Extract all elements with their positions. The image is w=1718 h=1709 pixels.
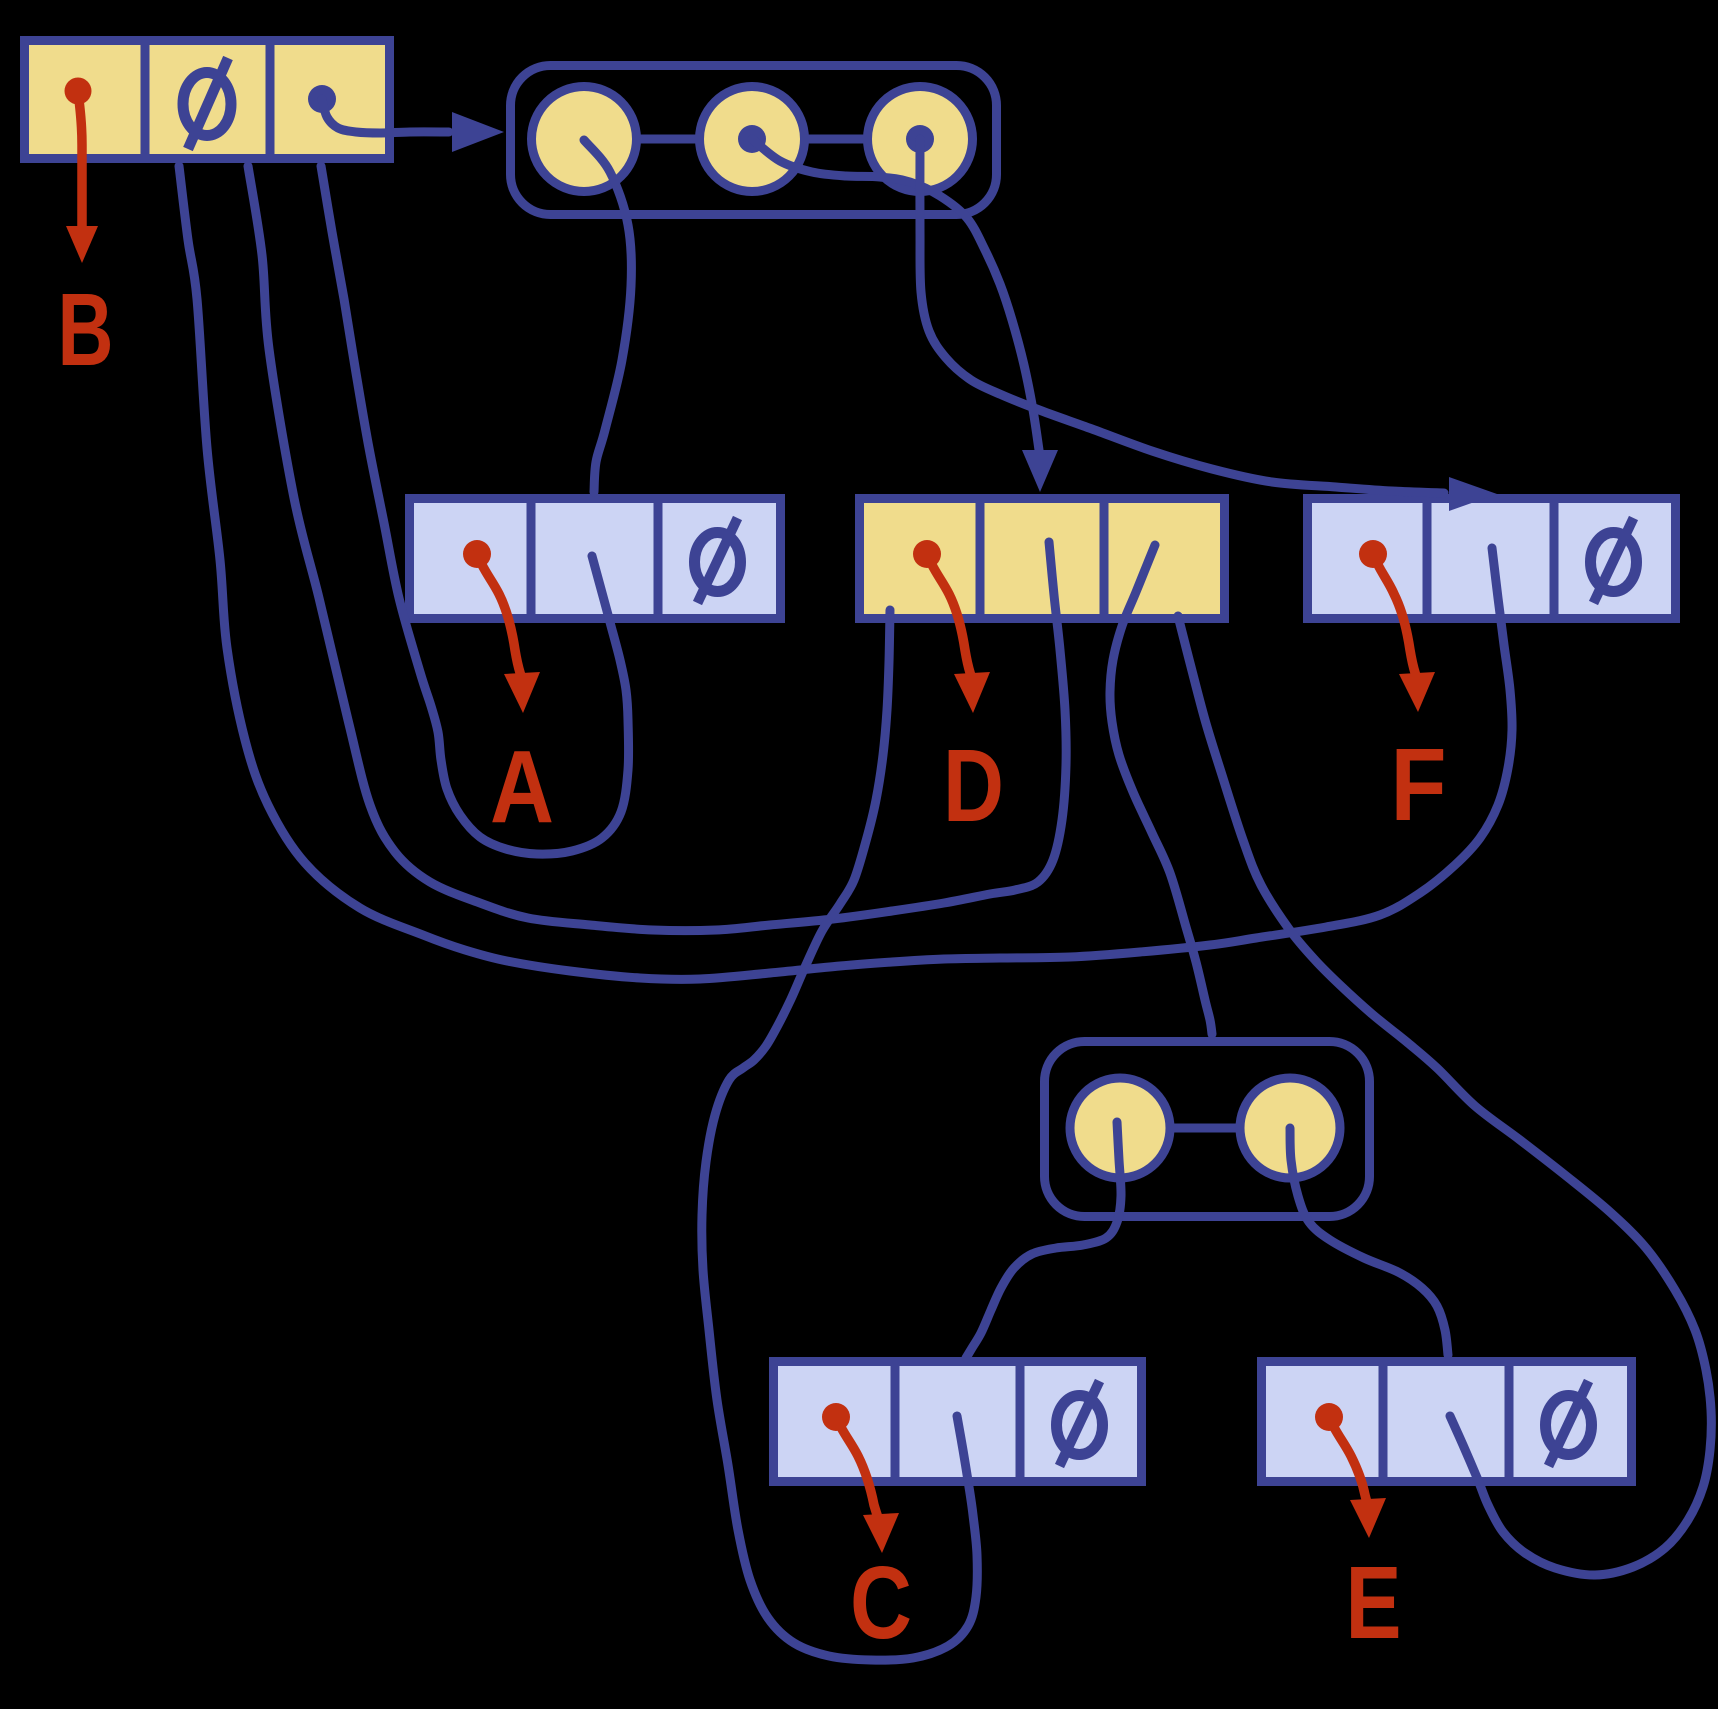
wire circle3 to F (arrow right) (920, 139, 1444, 493)
data dot in D cell1 (913, 540, 941, 568)
set container 1 (children of B) (511, 66, 997, 215)
pointer dot in circle 2 (738, 125, 766, 153)
null symbol in F cell3 (1591, 518, 1637, 603)
set 1 member circle 2 (700, 87, 805, 192)
node box A (light blue) (410, 494, 781, 623)
set 1 member circle 3 (868, 87, 973, 192)
data arrowhead of E (1350, 1498, 1386, 1538)
wire D.cell3 to set container 2 (1110, 545, 1212, 1034)
data dot in E cell1 (1315, 1403, 1343, 1431)
set 2 member circle left (1070, 1078, 1170, 1178)
wire A.cell2 to B (parent pointer, inner U) (321, 166, 629, 854)
data arrow of A (477, 554, 521, 676)
data dot in B cell1 (65, 78, 92, 105)
node box F (light blue) (1308, 494, 1676, 623)
pointer dot in B cell3 (308, 85, 336, 113)
node box D (yellow) (860, 494, 1225, 623)
null symbol in C cell3 (1057, 1381, 1103, 1466)
data arrowhead of C (863, 1513, 899, 1553)
arrowhead into F (1449, 477, 1497, 511)
wire B.cell3 to set container 1 (with arrow) (322, 99, 449, 133)
wire set2 right circle to E (1290, 1128, 1448, 1355)
arrowhead into set container 1 (452, 112, 504, 152)
data arrow of F (1373, 554, 1416, 676)
data arrow of C (836, 1417, 879, 1520)
wire circle2 to D (arrow down) (752, 139, 1039, 450)
connector set2 circles (1170, 1124, 1240, 1133)
set 2 member circle right (1240, 1078, 1340, 1178)
svg-text:E: E (1346, 1545, 1402, 1660)
node box C (light blue) (774, 1357, 1142, 1486)
data arrowhead of B (66, 226, 98, 263)
svg-text:A: A (490, 729, 554, 844)
connector circle1-circle2 (637, 135, 700, 144)
null symbol in B cell2 (183, 58, 231, 149)
null symbol in A cell3 (695, 518, 741, 603)
set 1 member circle 1 (532, 87, 637, 192)
data arrowhead of F (1399, 672, 1435, 712)
wire C.cell2 to D (parent pointer, U around C) (702, 610, 978, 1660)
data arrow of E (1329, 1417, 1368, 1507)
data dot in F cell1 (1359, 540, 1387, 568)
wire circle1 to A (top edge) (584, 140, 631, 492)
wire E.cell2 to D (parent pointer, loop around E) (1178, 616, 1711, 1575)
data dot in A cell1 (463, 540, 491, 568)
svg-text:D: D (943, 728, 1004, 843)
arrowhead into D (1022, 450, 1058, 492)
wire D.cell2 to B (parent pointer, middle sweep) (248, 166, 1066, 931)
data dot in C cell1 (822, 1403, 850, 1431)
data arrow of B (78, 91, 82, 226)
pointer dot in circle 3 (906, 125, 934, 153)
svg-text:B: B (58, 272, 114, 387)
svg-text:F: F (1391, 727, 1447, 842)
data arrowhead of D (954, 672, 990, 713)
node box E (light blue) (1262, 1357, 1632, 1486)
data arrowhead of A (504, 672, 540, 713)
svg-text:C: C (850, 1545, 912, 1660)
set container 2 (children of D) (1045, 1042, 1370, 1217)
wire set2 left circle to C (966, 1122, 1121, 1358)
data arrow of D (927, 554, 971, 676)
null symbol in E cell3 (1546, 1381, 1592, 1466)
node box B (root, yellow) (25, 36, 390, 163)
wire F.cell2 to B (parent pointer, outer sweep) (179, 166, 1512, 979)
connector circle2-circle3 (805, 135, 868, 144)
